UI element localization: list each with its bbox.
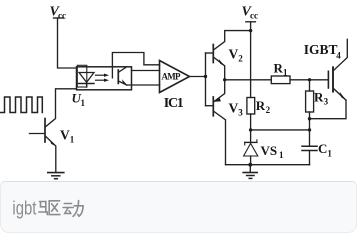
svg-text:IGBT: IGBT [304, 42, 338, 57]
svg-text:V: V [229, 101, 239, 116]
svg-text:4: 4 [336, 51, 341, 61]
svg-text:igbt: igbt [12, 198, 36, 220]
svg-text:C: C [318, 141, 327, 156]
svg-text:1: 1 [283, 68, 288, 78]
svg-text:V: V [60, 128, 70, 143]
svg-text:R: R [274, 61, 284, 76]
svg-text:cc: cc [250, 11, 258, 21]
svg-text:2: 2 [266, 105, 271, 115]
svg-text:1: 1 [81, 98, 86, 108]
svg-text:1: 1 [327, 149, 332, 159]
svg-text:R: R [314, 90, 324, 105]
svg-text:3: 3 [324, 97, 329, 107]
svg-text:cc: cc [58, 11, 66, 21]
svg-text:V: V [229, 47, 239, 62]
svg-text:VS: VS [261, 143, 278, 158]
svg-text:IC1: IC1 [164, 96, 184, 111]
svg-text:2: 2 [238, 54, 243, 64]
svg-text:AMP: AMP [162, 72, 182, 82]
svg-text:1: 1 [70, 135, 75, 145]
svg-text:3: 3 [238, 108, 243, 118]
svg-text:1: 1 [279, 150, 284, 160]
svg-text:R: R [256, 98, 266, 113]
